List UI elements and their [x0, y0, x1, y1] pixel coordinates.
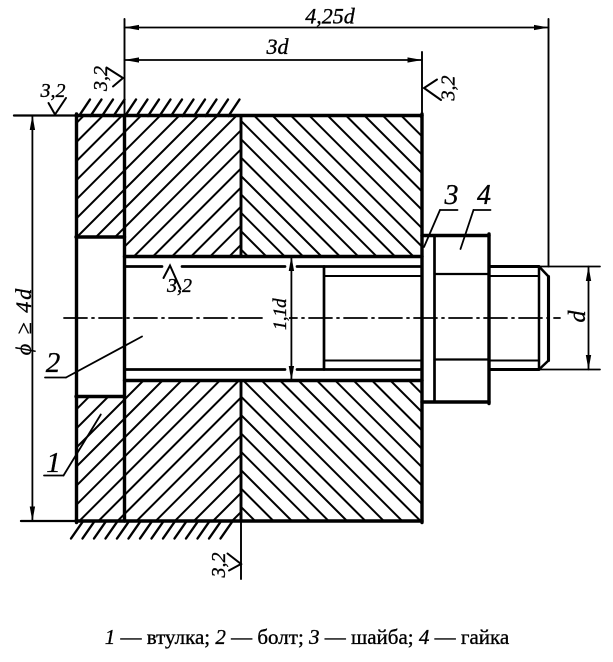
thread minor diameter top — [325, 275, 422, 277]
extension line bolt end x548.5 — [548, 19, 550, 267]
dimension line 3d — [125, 59, 423, 61]
hatch left part (bushing 1) lower section — [76, 381, 241, 522]
washer nut boundary — [433, 236, 436, 403]
bolt head top edge — [76, 235, 125, 238]
nut right face — [487, 234, 490, 404]
part label 4 shelf — [474, 209, 491, 211]
surface hatch ticks above top edge — [79, 100, 240, 117]
svg-text:1,1d: 1,1d — [270, 298, 291, 330]
roughness mark M5 check — [228, 554, 242, 571]
hatch right part upper section — [241, 116, 422, 257]
extension line top left — [14, 114, 76, 116]
bolt end bottom line — [489, 368, 539, 371]
surface hatch ticks below bottom edge — [71, 522, 232, 539]
bolt end face — [547, 277, 550, 361]
nut chamfer line upper — [435, 273, 490, 275]
dimension line d — [588, 267, 590, 370]
extension line right plate face x422 — [421, 52, 423, 116]
bolt end thread minor bottom — [489, 360, 539, 362]
svg-text:3,2: 3,2 — [208, 553, 230, 579]
svg-text:2: 2 — [46, 347, 61, 379]
thread boundary line — [323, 267, 326, 370]
part label 3 shelf — [440, 209, 458, 211]
extension line d top — [539, 266, 600, 268]
plate bottom edge — [76, 519, 422, 522]
svg-text:1: 1 — [46, 447, 61, 479]
bolt chamfer diagonal lower — [539, 361, 549, 370]
roughness mark M4 check — [164, 266, 181, 290]
svg-text:4: 4 — [477, 180, 491, 211]
svg-text:3,2: 3,2 — [438, 76, 460, 102]
roughness mark M2 check — [107, 68, 124, 87]
hatch right part lower section — [241, 381, 422, 522]
svg-text:3,2: 3,2 — [166, 275, 192, 297]
extension line bottom left — [21, 520, 76, 522]
bolt head bottom edge — [76, 395, 125, 398]
hole top edge — [125, 255, 423, 258]
svg-text:3d: 3d — [266, 34, 290, 59]
centerline axis — [64, 317, 560, 319]
svg-text:4,25d: 4,25d — [305, 4, 356, 29]
part label 2 leader — [66, 337, 142, 378]
extension line d bottom — [539, 369, 600, 371]
bolt end top line — [489, 265, 539, 268]
plate left edge — [75, 114, 78, 523]
svg-text:3: 3 — [444, 180, 459, 211]
svg-text:1 — втулка; 2 — болт; 3 — шайб: 1 — втулка; 2 — болт; 3 — шайба; 4 — гай… — [105, 625, 510, 649]
bolt chamfer diagonal upper — [539, 267, 549, 277]
counterbore / bolt head seat line — [123, 116, 126, 522]
nut chamfer line lower — [435, 358, 490, 360]
plate right edge — [420, 114, 423, 523]
part label 1 leader — [64, 415, 101, 476]
washer and nut bottom edge — [422, 400, 489, 403]
dimension line 1,1d — [290, 257, 292, 381]
roughness mark M1 check — [49, 98, 67, 115]
extension line joint below plate — [240, 521, 242, 579]
hatch left part (bushing 1) upper section — [76, 116, 241, 257]
dimension line phi 4d — [31, 116, 33, 522]
bolt shank bottom line — [125, 368, 423, 371]
white gap for 1,1d text — [265, 297, 289, 331]
roughness mark M3 check — [424, 80, 441, 101]
thread minor diameter bottom — [325, 360, 422, 362]
bolt end thread minor top — [489, 275, 539, 277]
washer and nut top edge — [422, 234, 489, 237]
part label 2 shelf — [45, 377, 66, 379]
joint line between parts lower — [240, 381, 243, 522]
part label 3 leader — [424, 210, 440, 247]
plate top edge — [76, 114, 422, 117]
extension line under head x124.5 — [124, 19, 126, 116]
svg-text:ϕ ≥ 4d: ϕ ≥ 4d — [11, 287, 36, 355]
bolt shank top line — [125, 265, 423, 268]
svg-text:3,2: 3,2 — [90, 66, 112, 92]
dimension line 4,25d — [125, 27, 549, 29]
joint line between parts upper — [240, 116, 243, 257]
part label 1 shelf — [44, 475, 64, 477]
svg-text:d: d — [565, 310, 591, 323]
bolt chamfer line — [538, 267, 541, 370]
part label 4 leader — [461, 210, 474, 249]
hole bottom edge — [125, 379, 423, 382]
svg-text:3,2: 3,2 — [40, 80, 66, 102]
